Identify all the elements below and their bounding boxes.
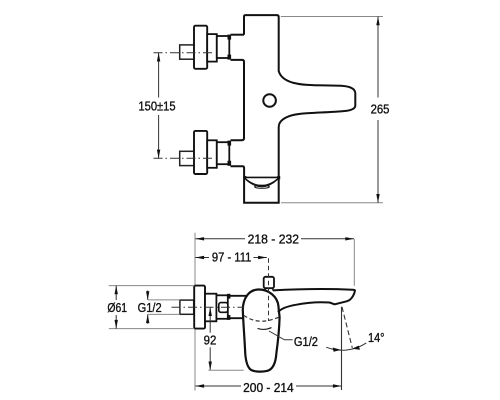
centerline lower union bbox=[154, 157, 215, 159]
dim text G1/2 left bbox=[138, 300, 162, 315]
dim text 150±15 bbox=[138, 99, 175, 114]
top junction line upper union bbox=[231, 34, 245, 36]
14 deg dashed line bbox=[342, 307, 352, 348]
side junction lines bbox=[229, 296, 246, 318]
dim 92 bottom ext bbox=[208, 369, 243, 371]
upper union step1 bbox=[207, 34, 217, 62]
spout mouth ellipse (front view) bbox=[255, 185, 270, 188]
body left edge between unions (front view) bbox=[231, 60, 245, 140]
vertical line spout tip to 200-214 bbox=[341, 307, 343, 390]
side step2 bbox=[216, 295, 227, 319]
side recess bbox=[219, 303, 228, 313]
svg-text:200 - 214: 200 - 214 bbox=[243, 380, 294, 395]
svg-text:97 - 111: 97 - 111 bbox=[212, 250, 252, 265]
ext line right 218-232 bbox=[353, 239, 355, 286]
lower union step1 bbox=[207, 140, 217, 168]
14 deg arc bbox=[326, 343, 366, 350]
dim text 92 bbox=[204, 333, 217, 348]
dim text 265 bbox=[371, 102, 390, 117]
upper union step2 bbox=[217, 36, 230, 58]
centerline upper union bbox=[154, 52, 215, 54]
side step1 bbox=[205, 294, 216, 322]
spout lip outer arc (front view) bbox=[245, 178, 278, 185]
dim 265 line bbox=[377, 17, 379, 203]
side nipple bbox=[180, 300, 194, 314]
dim Ø61 ext lines bbox=[109, 286, 194, 329]
dim 265 extension lines bbox=[281, 17, 383, 203]
dashed handle centerline (side view) bbox=[268, 258, 270, 321]
dim text G1/2 right bbox=[294, 334, 318, 349]
sphere bottom dashed arc bbox=[244, 315, 279, 321]
side flange bbox=[194, 286, 205, 329]
svg-text:92: 92 bbox=[204, 333, 217, 348]
handle hole circle (front view) bbox=[263, 94, 276, 107]
upper union seal dots bbox=[228, 35, 232, 40]
svg-text:14°: 14° bbox=[368, 330, 385, 345]
dim 218-232 line bbox=[195, 238, 354, 240]
lower union nipple bbox=[180, 151, 199, 165]
dim Ø61 line bbox=[115, 286, 117, 329]
side centerline dash-dot bbox=[172, 306, 245, 308]
lower union seal dots bbox=[228, 141, 232, 146]
leader G1/2 right bbox=[269, 331, 293, 340]
wall extension line bbox=[194, 233, 196, 391]
knob (side view) bbox=[264, 277, 274, 288]
svg-text:Ø61: Ø61 bbox=[107, 301, 127, 315]
dim G1/2 ext lines bbox=[148, 300, 180, 315]
side seal dots bbox=[227, 294, 230, 299]
svg-text:G1/2: G1/2 bbox=[294, 334, 318, 349]
dim text Ø61 bbox=[107, 301, 127, 315]
upper union nipple bbox=[180, 45, 199, 59]
svg-text:265: 265 bbox=[371, 102, 390, 117]
lower union step2 bbox=[217, 142, 230, 164]
dim text 14 deg bbox=[368, 330, 385, 345]
dim text 97-111 bbox=[212, 250, 252, 265]
spout lip inner arc (front view) bbox=[246, 179, 278, 186]
dim 92 line bbox=[209, 307, 211, 370]
body egg (side view) bbox=[243, 289, 280, 371]
dim G1/2 arrows outside bbox=[147, 291, 149, 324]
upper union flange bbox=[194, 26, 207, 69]
dim text 218-232 bbox=[248, 232, 299, 246]
spout collar end dots bbox=[243, 176, 246, 179]
svg-text:150±15: 150±15 bbox=[138, 99, 175, 114]
svg-text:218 - 232: 218 - 232 bbox=[248, 232, 299, 246]
spout blade (side view) bbox=[273, 289, 355, 312]
body outline with lever (front view) bbox=[231, 15, 356, 203]
dim 150±15 line bbox=[158, 53, 160, 159]
dim 200-214 line bbox=[195, 385, 341, 387]
hidden outlet arc small bbox=[258, 328, 272, 330]
dim 97-111 line bbox=[195, 257, 266, 259]
lower union flange bbox=[194, 131, 207, 174]
spout collar line (front view) bbox=[245, 176, 279, 178]
svg-text:G1/2: G1/2 bbox=[138, 300, 162, 315]
dim text 200-214 bbox=[243, 380, 294, 395]
